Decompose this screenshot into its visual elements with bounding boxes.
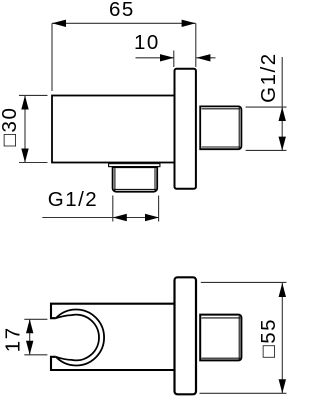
elbow body — [52, 96, 175, 163]
dimension 10 right arrow — [196, 54, 210, 61]
extension line 65 left — [51, 23, 53, 91]
dimension G1/2 right down arrow — [279, 137, 286, 151]
right connector inner bottom line — [202, 146, 241, 148]
extension line square55 top — [201, 281, 287, 283]
svg-text:17: 17 — [2, 326, 25, 352]
svg-text:10: 10 — [134, 31, 160, 54]
holder fork outer profile — [56, 310, 104, 366]
dimension G1/2 right up arrow — [279, 107, 286, 121]
bottom thread inner left line — [114, 168, 116, 190]
dimension G1/2 right vertical line — [281, 57, 283, 151]
extension line G1/2 bottom left — [112, 196, 114, 222]
lower G1/2 connector outer — [200, 315, 241, 361]
lower connector inner top line — [202, 317, 241, 319]
dimension 10 left arrow — [160, 54, 174, 61]
right connector inner top line — [202, 108, 241, 110]
extension line square30 top — [19, 94, 48, 96]
holder block outline — [51, 304, 175, 370]
extension line 17 bottom — [24, 354, 47, 356]
holder fork inner profile — [56, 315, 99, 361]
dimension G1/2 bottom right arrow — [145, 214, 159, 221]
extension line G1/2 right bottom — [246, 149, 287, 151]
svg-text:G1/2: G1/2 — [257, 52, 280, 102]
extension line G1/2 right top — [246, 106, 287, 108]
dimension 65 line — [52, 22, 196, 24]
wall plate (upper view) — [175, 69, 196, 189]
dimension 65 left arrow — [52, 20, 66, 27]
dimension 10 left tail — [136, 57, 175, 59]
svg-text:G1/2: G1/2 — [48, 188, 98, 211]
bottom thread inner bottom line — [114, 188, 156, 190]
bottom G1/2 thread outer — [113, 167, 158, 192]
right connector inner right line — [238, 108, 240, 149]
dimension G1/2 bottom left arrow — [113, 214, 127, 221]
dimension square55 up arrow — [279, 283, 286, 297]
bottom connector flange — [109, 164, 160, 167]
extension line G1/2 bottom right — [158, 196, 160, 222]
svg-text:65: 65 — [109, 0, 135, 21]
dimension square30 top arrow — [21, 96, 28, 110]
svg-text:□30: □30 — [0, 107, 21, 147]
lower connector inner bottom line — [202, 357, 241, 359]
extension line 17 top — [24, 318, 47, 320]
dimension square55 line — [281, 282, 283, 393]
bottom thread inner right line — [154, 168, 156, 190]
wall plate (lower view) — [175, 277, 197, 394]
dimension square30 line — [24, 96, 26, 163]
dimension square30 bottom arrow — [21, 149, 28, 163]
lower connector inner right line — [238, 316, 240, 359]
dimension G1/2 bottom line — [42, 217, 159, 219]
extension line square30 bottom — [19, 162, 48, 164]
dimension 17 up arrow — [26, 319, 33, 333]
extension line square55 bottom — [200, 392, 287, 394]
dimension 17 line — [29, 319, 31, 355]
extension line 65/10 right — [195, 23, 197, 67]
dimension square55 down arrow — [279, 379, 286, 393]
svg-text:□55: □55 — [257, 318, 280, 358]
dimension 10 right tail — [196, 57, 215, 59]
right G1/2 connector outer — [200, 106, 241, 149]
dimension 17 down arrow — [26, 341, 33, 355]
dimension 65 right arrow — [182, 20, 196, 27]
extension line 10 left — [173, 51, 175, 68]
